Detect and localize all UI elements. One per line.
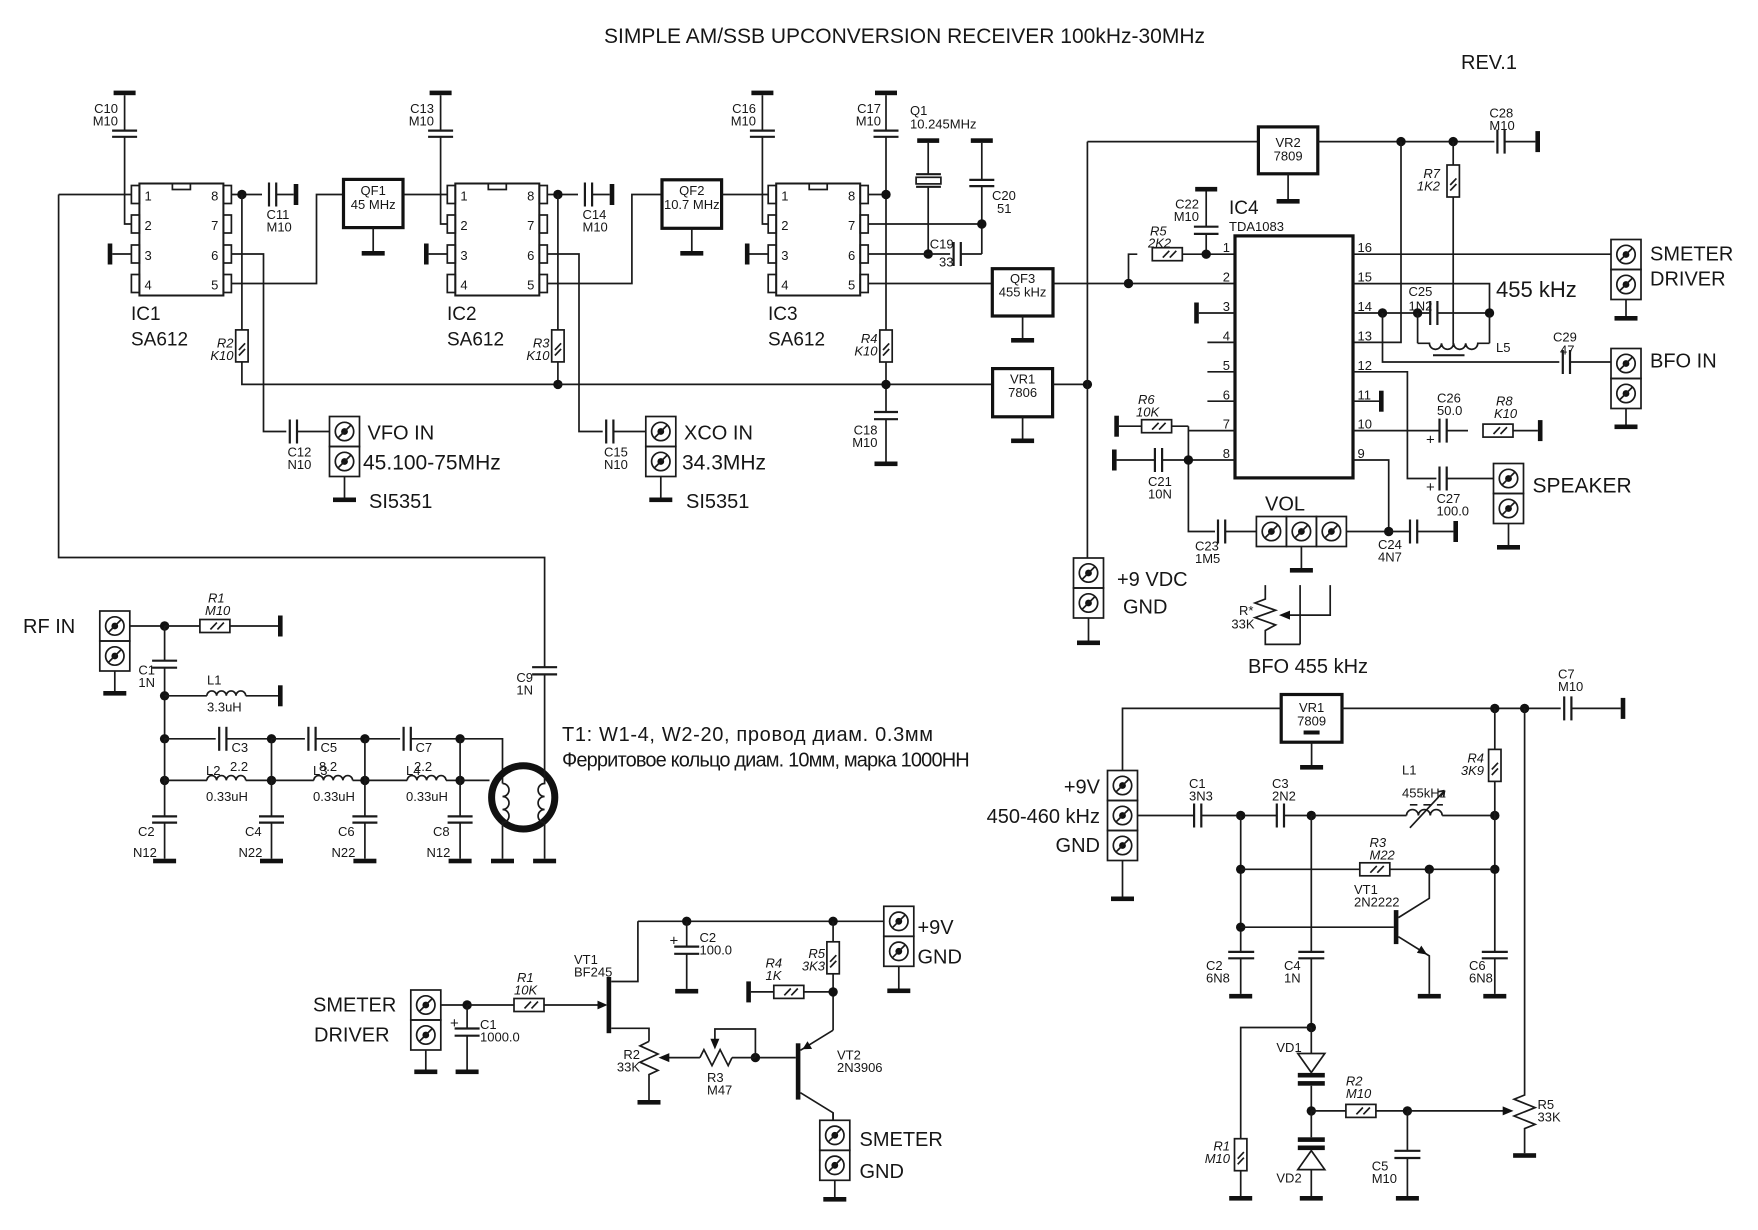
wire IC2 pin6 down to C15 <box>547 254 602 432</box>
node R2/C5 <box>1403 1106 1412 1115</box>
node L1 row <box>160 691 169 700</box>
svg-text:47: 47 <box>1560 343 1574 358</box>
svg-text:5: 5 <box>1223 358 1230 373</box>
inductor L2 0.33uH <box>165 779 207 781</box>
svg-text:VD1: VD1 <box>1276 1040 1301 1055</box>
svg-text:C25: C25 <box>1409 284 1433 299</box>
svg-text:L3: L3 <box>313 763 327 778</box>
node base/R3 <box>751 1053 760 1062</box>
svg-text:11: 11 <box>1358 388 1372 403</box>
node VT1 base row <box>1236 923 1245 932</box>
wire IC2 pin5 to QF2 <box>547 195 662 284</box>
svg-text:7809: 7809 <box>1274 149 1303 164</box>
capacitor C1 1N <box>164 626 166 661</box>
wire QF2 to IC3 pin1 <box>722 194 769 196</box>
svg-text:6: 6 <box>848 248 855 263</box>
svg-text:2: 2 <box>781 218 788 233</box>
svg-text:XCO IN: XCO IN <box>684 423 753 445</box>
wire BFO takeoff to C29 <box>1383 313 1560 362</box>
node pin14 BFO tap <box>1378 308 1387 317</box>
svg-text:2: 2 <box>145 218 152 233</box>
svg-text:K10: K10 <box>210 348 234 363</box>
wire connector to C1 <box>1138 815 1194 817</box>
capacitor C5 8.2 <box>308 727 315 751</box>
wire VT1 drain to rail <box>611 921 638 981</box>
svg-text:3: 3 <box>145 248 152 263</box>
wire IC3 pin8 to C17/R4 node <box>868 194 886 196</box>
svg-text:SI5351: SI5351 <box>369 491 432 513</box>
svg-text:10K: 10K <box>1136 405 1160 420</box>
capacitor C17 <box>875 91 897 96</box>
svg-text:5: 5 <box>527 278 534 293</box>
svg-text:GND: GND <box>1056 835 1100 857</box>
ground bar IC4 pin3 <box>1194 303 1199 324</box>
svg-text:3.3uH: 3.3uH <box>207 700 242 715</box>
inductor L4 0.33uH <box>365 779 407 781</box>
svg-text:51: 51 <box>997 201 1011 216</box>
wire IC4 pin14 <box>1353 312 1430 314</box>
wire C20 down through pin7 node to C19 <box>981 186 983 254</box>
svg-text:1: 1 <box>145 189 152 204</box>
wire C1/C3 node down <box>1240 816 1242 952</box>
node ladder row1 left <box>160 734 169 743</box>
resistor R1 M10 <box>165 625 200 627</box>
capacitor C23 1M5 <box>1218 520 1225 544</box>
svg-text:0.33uH: 0.33uH <box>406 789 448 804</box>
node R3 rail <box>553 380 562 389</box>
capacitor C11 <box>269 183 276 207</box>
svg-text:4: 4 <box>781 278 788 293</box>
svg-text:M10: M10 <box>1205 1151 1231 1166</box>
svg-text:N22: N22 <box>332 845 356 860</box>
svg-text:IC2: IC2 <box>447 304 477 325</box>
IC IC3 SA612 <box>768 184 868 296</box>
svg-text:C7: C7 <box>416 740 433 755</box>
wire VR1 input from +9V connector <box>1123 708 1282 770</box>
node tank right <box>1485 308 1494 317</box>
node IC2 pin8 <box>553 190 562 199</box>
svg-text:10.7 MHz: 10.7 MHz <box>664 197 720 212</box>
wire IC3 pin5 to QF3 <box>868 283 992 285</box>
wire VD1 node to R1 <box>1241 1028 1312 1139</box>
connector RF IN <box>100 611 130 641</box>
capacitor C19 33 <box>954 242 961 266</box>
svg-text:33K: 33K <box>1538 1110 1561 1125</box>
capacitor C6 N22 <box>364 739 366 816</box>
wire IC1 pin6 down to C12 <box>231 254 286 432</box>
svg-text:M10: M10 <box>1372 1171 1397 1186</box>
svg-text:BFO IN: BFO IN <box>1650 351 1717 373</box>
svg-text:L1: L1 <box>207 673 221 688</box>
svg-text:+9 VDC: +9 VDC <box>1117 569 1188 591</box>
svg-text:SMETER: SMETER <box>313 995 396 1017</box>
svg-text:M10: M10 <box>93 114 118 129</box>
transistor VT2 2N3906 <box>796 1043 801 1099</box>
ground SPEAKER <box>1508 524 1510 546</box>
wire R2 node to R5 wiper <box>1407 1110 1504 1112</box>
svg-text:M10: M10 <box>267 220 292 235</box>
svg-text:8: 8 <box>848 189 855 204</box>
resistor R5 2K2 <box>1129 254 1138 283</box>
svg-text:8: 8 <box>1223 446 1230 461</box>
svg-text:M10: M10 <box>1489 118 1514 133</box>
svg-text:M10: M10 <box>409 114 434 129</box>
svg-text:N22: N22 <box>239 845 263 860</box>
svg-text:1K: 1K <box>766 968 783 983</box>
capacitor C9 1N <box>532 666 557 668</box>
wire VOL to C24/pin9 <box>1346 531 1388 533</box>
wire node to T1 secondary (long run) <box>59 195 545 668</box>
diode VD1 varicap <box>1310 1028 1312 1054</box>
svg-text:100.0: 100.0 <box>1437 504 1470 519</box>
resistor R2 M10 <box>1311 1110 1346 1112</box>
ground VR1 7809 <box>1311 742 1313 765</box>
node +9V rail / VR1 <box>1083 380 1092 389</box>
svg-text:N12: N12 <box>133 845 157 860</box>
svg-text:100.0: 100.0 <box>700 943 733 958</box>
svg-text:M47: M47 <box>707 1083 732 1098</box>
T1 primary winding <box>503 784 510 859</box>
wire R3 to R2 wiper <box>668 1057 700 1059</box>
svg-text:SMETER: SMETER <box>860 1129 943 1151</box>
filter QF3 455 kHz <box>992 269 1053 316</box>
svg-text:SI5351: SI5351 <box>686 491 749 513</box>
svg-text:N12: N12 <box>427 845 451 860</box>
svg-text:2N3906: 2N3906 <box>837 1060 883 1075</box>
capacitor C21 <box>1112 450 1117 471</box>
resistor R2 K10 <box>241 195 243 330</box>
svg-text:L5: L5 <box>1496 340 1510 355</box>
svg-text:GND: GND <box>918 947 962 969</box>
capacitor C18 <box>874 411 898 413</box>
svg-text:3: 3 <box>460 248 467 263</box>
capacitor C12 <box>290 420 297 444</box>
rheostat R3 M47 <box>700 1050 756 1066</box>
node row1 C3/C5 <box>267 734 276 743</box>
node row1 right <box>455 734 464 743</box>
svg-text:6: 6 <box>211 248 218 263</box>
capacitor C26 50.0 polar <box>1440 419 1447 443</box>
svg-text:IC4: IC4 <box>1229 198 1259 219</box>
connector SMETER DRIVER <box>1611 240 1641 270</box>
node R5/R4/VT2 emitter <box>828 987 837 996</box>
svg-text:+: + <box>1426 432 1435 449</box>
svg-text:M10: M10 <box>731 114 756 129</box>
capacitor C29 47 <box>1563 350 1570 374</box>
ground SMETER DRIVER <box>1625 300 1627 317</box>
svg-text:C3: C3 <box>232 740 249 755</box>
connector +9 VDC / GND <box>1074 558 1104 588</box>
ground bar IC1 pin3 <box>108 244 113 265</box>
capacitor C15 <box>606 420 613 444</box>
svg-text:+: + <box>1426 479 1435 496</box>
transformer T1 ferrite ring <box>492 766 555 829</box>
wire C16 to IC3 pin2 <box>762 137 768 224</box>
IC IC4 TDA1083 <box>1235 236 1353 478</box>
svg-text:6: 6 <box>527 248 534 263</box>
wire RF IN to node <box>130 625 165 627</box>
capacitor C5 M10 <box>1406 1111 1408 1151</box>
node tank left <box>1413 308 1422 317</box>
wire IC2 pin8 to node <box>547 194 578 196</box>
svg-text:1: 1 <box>781 189 788 204</box>
svg-text:7809: 7809 <box>1297 714 1326 729</box>
capacitor C22 <box>1195 187 1217 192</box>
node row2 L2/L3 <box>267 776 276 785</box>
svg-text:7: 7 <box>211 218 218 233</box>
capacitor C7 M10 <box>1564 696 1571 720</box>
connector SMETER GND <box>820 1120 850 1150</box>
svg-text:6N8: 6N8 <box>1206 971 1230 986</box>
wire IC1 pin1 left <box>59 194 132 196</box>
inductor L3 0.33uH <box>272 779 314 781</box>
capacitor C1 1000.0 polar <box>466 1005 468 1028</box>
svg-text:6: 6 <box>1223 388 1230 403</box>
ground +9VDC connector <box>1088 618 1090 641</box>
node RF input <box>160 621 169 630</box>
wire IC4 pin15 to tank <box>1353 284 1490 313</box>
node VD1/VD2/R2 <box>1307 1106 1316 1115</box>
svg-text:34.3MHz: 34.3MHz <box>682 452 766 475</box>
node C1/R1 <box>462 1000 471 1009</box>
node VD1 top / C4 <box>1307 1023 1316 1032</box>
svg-text:REV.1: REV.1 <box>1461 52 1517 74</box>
svg-text:1: 1 <box>460 189 467 204</box>
svg-text:3: 3 <box>781 248 788 263</box>
resistor R4 1K <box>746 981 751 1002</box>
wire VR2 output <box>1318 141 1495 143</box>
inductor L5 <box>1418 313 1490 343</box>
resistor R7 1K2 <box>1452 142 1454 165</box>
wire IC1 pin5 to QF1 <box>231 195 343 284</box>
node ladder row2 left <box>160 776 169 785</box>
wire IC4 pin7 <box>1188 430 1235 432</box>
svg-text:10N: 10N <box>1148 487 1172 502</box>
svg-text:4N7: 4N7 <box>1378 550 1402 565</box>
stub IC4 pin6 <box>1207 400 1235 402</box>
svg-text:15: 15 <box>1358 270 1372 285</box>
node pin7/C20 <box>977 219 986 228</box>
wire IC1 pin8 to node <box>231 194 262 196</box>
ground VFO IN <box>344 477 346 498</box>
node IC1 pin8 <box>237 190 246 199</box>
connector VFO IN <box>330 417 360 447</box>
wire R6/pin7 vertical to C23 <box>1188 426 1215 531</box>
ground +9V connector <box>1122 861 1124 897</box>
svg-text:C8: C8 <box>433 824 450 839</box>
svg-text:L2: L2 <box>206 763 220 778</box>
svg-text:1N2: 1N2 <box>1409 299 1433 314</box>
wire IC3 pin7 <box>868 223 982 225</box>
capacitor C4 N22 <box>271 739 273 816</box>
capacitor C8 N12 <box>459 739 461 816</box>
wire C10 to IC1 pin2 <box>125 137 132 224</box>
svg-text:IC3: IC3 <box>768 304 798 325</box>
svg-text:+: + <box>670 933 679 950</box>
node pin8/C21/C23 <box>1184 455 1193 464</box>
IC IC2 SA612 <box>447 184 547 296</box>
svg-text:450-460 kHz: 450-460 kHz <box>987 806 1100 828</box>
wire QF1 to IC2 pin1 <box>403 194 447 196</box>
connector BFO IN <box>1611 349 1641 379</box>
svg-text:50.0: 50.0 <box>1437 403 1462 418</box>
svg-text:L4: L4 <box>406 763 420 778</box>
svg-text:IC1: IC1 <box>131 304 161 325</box>
svg-text:C19: C19 <box>930 237 954 252</box>
capacitor C10 <box>114 91 136 96</box>
capacitor C28 <box>1497 130 1504 154</box>
svg-text:45.100-75MHz: 45.100-75MHz <box>363 452 501 475</box>
supply rail 6V <box>558 383 993 385</box>
svg-text:33K: 33K <box>1231 617 1254 632</box>
svg-text:9: 9 <box>1358 446 1365 461</box>
node R4 3K9 tap <box>1490 704 1499 713</box>
svg-text:C2: C2 <box>138 824 155 839</box>
svg-text:3: 3 <box>1223 299 1230 314</box>
node Q1/C19 <box>924 249 933 258</box>
svg-text:DRIVER: DRIVER <box>314 1025 390 1047</box>
wire R2 to supply rail <box>242 362 558 385</box>
node row2 L3/L4 <box>360 776 369 785</box>
svg-text:SA612: SA612 <box>131 330 188 351</box>
svg-text:1N: 1N <box>138 675 155 690</box>
svg-text:7: 7 <box>527 218 534 233</box>
filter QF2 10.7 MHz <box>662 180 722 229</box>
node row1 C5/C7 <box>360 734 369 743</box>
svg-text:VFO IN: VFO IN <box>368 423 435 445</box>
diode VD2 varicap <box>1310 1111 1312 1137</box>
svg-text:33: 33 <box>939 255 953 270</box>
capacitor C13 <box>430 91 452 96</box>
wire row1 to T1 primary <box>460 739 502 784</box>
stub IC4 pin4 <box>1207 341 1235 343</box>
svg-text:2: 2 <box>1223 270 1230 285</box>
ground BFO IN <box>1625 409 1627 425</box>
wire R4 node down to R3/C6 <box>1494 816 1496 952</box>
svg-text:K10: K10 <box>1494 406 1518 421</box>
resistor R4 K10 <box>880 330 892 362</box>
svg-text:GND: GND <box>1123 597 1167 619</box>
connector VOL <box>1256 517 1286 547</box>
ground XCO IN <box>660 477 662 498</box>
svg-text:45 MHz: 45 MHz <box>351 197 396 212</box>
capacitor C25 1N2 <box>1430 301 1437 325</box>
svg-text:N10: N10 <box>288 457 312 472</box>
node R3 left <box>1236 865 1245 874</box>
resistor R1 M10 <box>1235 1139 1247 1171</box>
transistor VT1 2N2222 <box>1241 926 1394 928</box>
svg-text:1000.0: 1000.0 <box>480 1030 520 1045</box>
connector XCO IN <box>646 417 676 447</box>
svg-text:K10: K10 <box>526 348 550 363</box>
wire VT2 collector to SMETER connector <box>832 1113 834 1121</box>
resistor R1 10K <box>467 1004 514 1006</box>
capacitor C4 1N <box>1310 816 1312 952</box>
svg-text:2.2: 2.2 <box>230 759 248 774</box>
node C1/C3 <box>1236 811 1245 820</box>
svg-text:N10: N10 <box>604 457 628 472</box>
wire IC4 pin10 to C26 <box>1353 430 1440 432</box>
T1 secondary winding <box>538 674 545 858</box>
svg-text:2N2222: 2N2222 <box>1354 895 1400 910</box>
svg-text:13: 13 <box>1358 329 1372 344</box>
wire +9V top rail <box>638 920 884 922</box>
svg-text:1N: 1N <box>516 683 533 698</box>
svg-text:K10: K10 <box>854 344 878 359</box>
svg-text:5: 5 <box>848 278 855 293</box>
variable inductor L1 455kHz <box>1311 815 1406 817</box>
potentiometer R* 33K <box>1255 585 1300 644</box>
node R5 33K tap <box>1520 704 1529 713</box>
wire C13 to IC2 pin2 <box>441 137 448 224</box>
svg-text:4: 4 <box>1223 329 1230 344</box>
ground VR2 <box>1287 174 1289 199</box>
capacitor C7 2.2 <box>404 727 411 751</box>
svg-text:3K3: 3K3 <box>802 959 826 974</box>
stub IC4 pin5 <box>1207 371 1235 373</box>
svg-text:QF2: QF2 <box>679 183 704 198</box>
wire connector to node <box>441 1004 467 1006</box>
svg-text:8: 8 <box>211 189 218 204</box>
svg-text:3K9: 3K9 <box>1461 763 1484 778</box>
capacitor C24 4N7 <box>1389 531 1410 533</box>
svg-text:M10: M10 <box>205 603 231 618</box>
ground VOL <box>1300 547 1302 569</box>
svg-text:VD2: VD2 <box>1276 1171 1301 1186</box>
regulator VR1 7806 <box>993 369 1053 417</box>
svg-text:33K: 33K <box>617 1060 640 1075</box>
regulator VR2 7809 <box>1087 141 1258 143</box>
wire pin13 feed from 9V <box>1353 142 1401 343</box>
svg-text:T1: W1-4, W2-20, провод диам.: T1: W1-4, W2-20, провод диам. 0.3мм <box>562 724 934 746</box>
ground QF1 <box>372 228 374 251</box>
svg-text:C4: C4 <box>245 824 262 839</box>
svg-text:GND: GND <box>860 1161 904 1183</box>
wire VR1 input from +9V rail <box>1053 383 1088 385</box>
svg-text:+9V: +9V <box>918 917 955 939</box>
svg-text:M10: M10 <box>852 435 877 450</box>
wire VT1 source to R2 <box>611 1028 649 1041</box>
svg-text:M10: M10 <box>1174 209 1199 224</box>
svg-text:BF245: BF245 <box>574 965 612 980</box>
capacitor C3 2N2 <box>1277 804 1284 828</box>
node R3 right <box>1490 865 1499 874</box>
capacitor C2 N12 <box>164 739 166 816</box>
svg-text:SMETER: SMETER <box>1650 244 1733 266</box>
svg-text:M22: M22 <box>1370 848 1396 863</box>
svg-text:455 kHz: 455 kHz <box>1496 277 1577 302</box>
svg-text:7: 7 <box>1223 417 1230 432</box>
stub IC4 pin11 <box>1353 400 1379 402</box>
ground bar IC2 pin3 <box>424 244 429 265</box>
node L1/R4 <box>1490 811 1499 820</box>
capacitor C1 3N3 <box>1194 804 1201 828</box>
node IC3 pin8 <box>881 190 890 199</box>
node C2 rail <box>682 917 691 926</box>
svg-text:RF IN: RF IN <box>23 616 75 638</box>
svg-text:DRIVER: DRIVER <box>1650 269 1726 291</box>
ground QF2 <box>691 228 693 251</box>
svg-text:M10: M10 <box>1558 679 1583 694</box>
wire row2 to T1 ring <box>460 779 489 781</box>
svg-text:6N8: 6N8 <box>1469 971 1493 986</box>
node pin9/VOL/C24 <box>1384 527 1393 536</box>
ground RF IN <box>114 671 116 691</box>
svg-text:SPEAKER: SPEAKER <box>1533 475 1632 498</box>
svg-text:7806: 7806 <box>1008 385 1037 400</box>
resistor R3 M22 <box>1241 868 1360 870</box>
wire IC4 pin16 to SMETER DRIVER <box>1353 253 1611 255</box>
